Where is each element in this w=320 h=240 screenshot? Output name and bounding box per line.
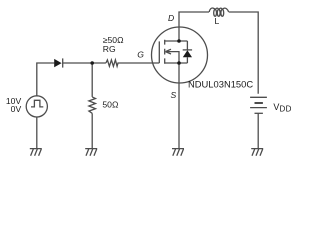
svg-text:S: S bbox=[171, 90, 177, 100]
svg-text:0V: 0V bbox=[11, 104, 22, 114]
svg-text:RG: RG bbox=[103, 44, 116, 54]
svg-text:NDUL03N150C: NDUL03N150C bbox=[188, 79, 253, 90]
svg-text:DD: DD bbox=[280, 104, 292, 113]
svg-text:V: V bbox=[273, 102, 279, 112]
svg-text:G: G bbox=[137, 50, 144, 60]
svg-text:L: L bbox=[215, 16, 220, 26]
svg-text:D: D bbox=[168, 13, 174, 23]
svg-text:50Ω: 50Ω bbox=[102, 100, 119, 110]
